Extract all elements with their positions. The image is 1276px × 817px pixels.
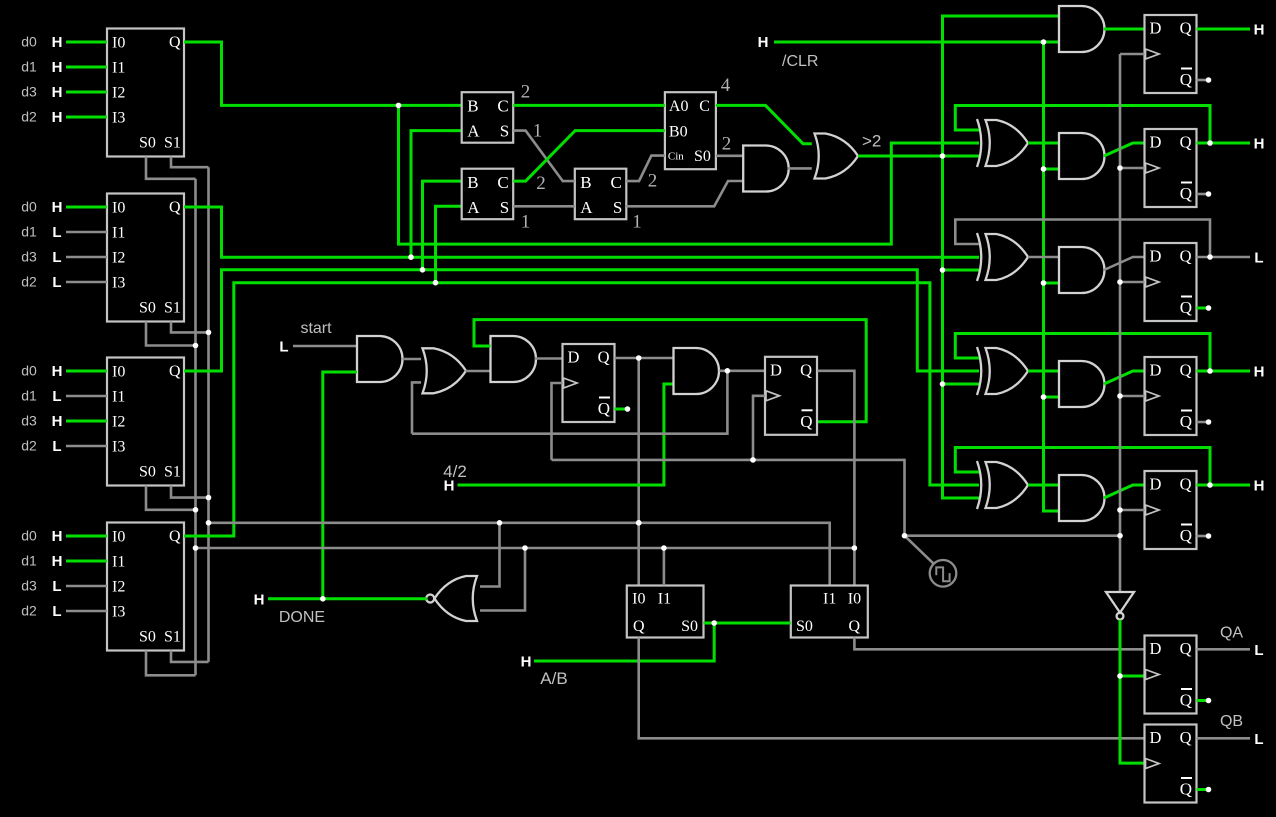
wire M2 S0 bend bbox=[146, 322, 196, 346]
svg-text:C: C bbox=[699, 98, 710, 115]
input label d0 H bbox=[21, 363, 62, 381]
or-gate G5 (greater-than-2) bbox=[815, 134, 859, 179]
wire A3 output to FF3.D bbox=[1104, 257, 1145, 270]
d-flip-flop FF5 row5 bbox=[1145, 471, 1197, 549]
wire S0 net to M5.I1 bbox=[663, 548, 666, 586]
wire A4 output to FF4.D bbox=[1104, 371, 1145, 384]
wire G2 lower input from run loop bbox=[412, 382, 421, 433]
svg-text:H: H bbox=[758, 34, 769, 51]
svg-text:L: L bbox=[52, 388, 61, 405]
svg-text:1: 1 bbox=[632, 212, 642, 233]
wire /CLR bus vertical bbox=[1044, 42, 1060, 511]
svg-text:Q: Q bbox=[633, 618, 645, 635]
wire inverted clock to FF-QB clock bbox=[1120, 620, 1145, 763]
wire U2.C to U4.B0 bbox=[513, 131, 665, 182]
svg-text:I0: I0 bbox=[632, 591, 645, 608]
svg-text:d1: d1 bbox=[21, 59, 37, 75]
wire M2.Q branch to U1.A bbox=[411, 131, 462, 258]
wire U3.C to U4.Cin bbox=[626, 156, 665, 182]
svg-text:d1: d1 bbox=[21, 388, 37, 404]
inverter N1 (clock) bbox=[1106, 592, 1134, 619]
d-flip-flop FF4 row4 bbox=[1145, 357, 1197, 435]
junction dot on wire S0 select line bbox=[193, 507, 199, 513]
svg-text:I2: I2 bbox=[112, 250, 125, 267]
junction dot on wire inverted clock to FF-QB clock bbox=[1117, 673, 1123, 679]
wire S1 select line bbox=[207, 167, 210, 662]
svg-text:S1: S1 bbox=[164, 464, 181, 481]
junction dot on wire S0 select line bbox=[193, 343, 199, 349]
wire S1 to NOR G7 upper input bbox=[480, 523, 500, 587]
svg-text:d3: d3 bbox=[21, 413, 37, 429]
junction dot on wire FF3.Q output bbox=[1207, 254, 1213, 260]
and-gate A5 row5 bbox=[1059, 475, 1105, 521]
svg-text:Q: Q bbox=[1180, 361, 1192, 380]
svg-text:I2: I2 bbox=[112, 579, 125, 596]
junction dot on wire S1 select line bbox=[206, 330, 212, 336]
wire U2.S to U3.A bbox=[513, 205, 575, 208]
and-gate G6 bbox=[674, 348, 720, 394]
xor-gate X4 row4 bbox=[977, 347, 1028, 395]
wire M3.Q to XOR row4 middle input bbox=[184, 270, 979, 371]
svg-text:Q: Q bbox=[1180, 526, 1192, 545]
wire clock branch to FF2 bbox=[1120, 167, 1145, 170]
wire S1 net horizontal to M6.I1 bbox=[209, 523, 830, 586]
svg-text:1: 1 bbox=[521, 212, 531, 233]
wire FF-QB.Q output bbox=[1197, 737, 1251, 740]
wire M1 S0 bend bbox=[146, 157, 196, 179]
svg-text:Q: Q bbox=[1180, 639, 1192, 658]
svg-text:Q: Q bbox=[169, 199, 181, 216]
comparator U1 bbox=[462, 92, 514, 143]
svg-text:S0: S0 bbox=[139, 629, 156, 646]
wire A/B input to S0 pins bbox=[534, 623, 714, 661]
junction dot on wire M1.Q to comparator U1.B bbox=[396, 103, 402, 109]
svg-text:S0: S0 bbox=[694, 148, 711, 165]
junction dot on wire G5 output to XOR row2 lower input bbox=[940, 153, 946, 159]
svg-text:H: H bbox=[1254, 22, 1265, 39]
svg-text:I2: I2 bbox=[112, 414, 125, 431]
wire bus branch to XOR row3 lower input bbox=[943, 269, 980, 272]
svg-text:H: H bbox=[52, 528, 63, 545]
nor-gate G7 (DONE) bbox=[426, 576, 477, 621]
junction dot on wire clock to FF-RUN bbox=[750, 457, 756, 463]
wire M1.Q branch to XOR row2 middle input bbox=[399, 105, 980, 244]
svg-text:A/B: A/B bbox=[540, 669, 567, 688]
wire clock branch to FF3 bbox=[1120, 281, 1145, 284]
svg-text:D: D bbox=[1150, 361, 1162, 380]
wire G7 output to DONE bbox=[268, 597, 427, 600]
wire input d0 to mux M2 (bit select B) I0 bbox=[66, 206, 107, 209]
svg-text:I3: I3 bbox=[112, 604, 125, 621]
svg-text:1: 1 bbox=[533, 121, 543, 142]
d-flip-flop FF-RUN bbox=[765, 357, 817, 435]
junction dot on wire M4.Q to XOR row5 middle input bbox=[433, 280, 439, 286]
svg-text:H: H bbox=[52, 413, 63, 430]
svg-text:B: B bbox=[467, 96, 478, 115]
svg-text:d2: d2 bbox=[21, 109, 37, 125]
d-flip-flop FF2 row2 bbox=[1145, 129, 1197, 207]
wire input d2 to mux M2 (bit select B) I3 bbox=[66, 281, 107, 284]
svg-text:I0: I0 bbox=[112, 200, 125, 217]
svg-text:I1: I1 bbox=[823, 591, 836, 608]
svg-text:L: L bbox=[52, 438, 61, 455]
svg-text:I3: I3 bbox=[112, 110, 125, 127]
svg-text:A: A bbox=[467, 121, 480, 140]
wire clock source stub bbox=[905, 536, 934, 564]
mux M4 (bit select D) bbox=[107, 523, 184, 651]
svg-text:Q: Q bbox=[1180, 247, 1192, 266]
svg-text:A: A bbox=[580, 198, 593, 217]
wire input d3 to mux M4 (bit select D) I2 bbox=[66, 585, 107, 588]
junction dot on wire S1 select line bbox=[206, 520, 212, 526]
wire FF3.Q output bbox=[1197, 256, 1251, 259]
wire FF-EN.Q to S1 line and mux M5.I0 bbox=[637, 358, 640, 586]
svg-text:L: L bbox=[52, 224, 61, 241]
input label d0 H bbox=[21, 528, 62, 546]
wire A5 output to FF5.D bbox=[1104, 485, 1145, 498]
svg-text:H: H bbox=[254, 592, 265, 609]
wire clock bus vertical bbox=[1119, 54, 1122, 591]
and-gate G4 bbox=[743, 146, 789, 192]
svg-text:L: L bbox=[1254, 250, 1263, 267]
wire /CLR branch to AND row4 lower input bbox=[1044, 396, 1060, 399]
junction dot on wire FF5.Qbar stub bbox=[1206, 533, 1212, 539]
svg-text:H: H bbox=[1254, 364, 1265, 381]
wire input d1 to mux M4 (bit select D) I1 bbox=[66, 560, 107, 563]
svg-text:L: L bbox=[1254, 731, 1263, 748]
svg-text:Q: Q bbox=[800, 360, 812, 379]
wire G3 output to FF-EN.D bbox=[535, 357, 563, 360]
svg-text:I0: I0 bbox=[112, 35, 125, 52]
svg-text:S0: S0 bbox=[796, 618, 813, 635]
wire M5.Q to FF-QB.D bbox=[639, 638, 1145, 739]
junction dot on wire /CLR input to AND row1 lower input bbox=[1041, 39, 1047, 45]
junction dot on wire G6 output to FF-RUN.D bbox=[725, 368, 731, 374]
input label d2 L bbox=[21, 438, 61, 456]
input label d2 L bbox=[21, 274, 61, 292]
svg-text:d2: d2 bbox=[21, 603, 37, 619]
svg-text:S0: S0 bbox=[681, 618, 698, 635]
svg-text:H: H bbox=[52, 109, 63, 126]
svg-text:L: L bbox=[52, 249, 61, 266]
svg-text:Q: Q bbox=[169, 528, 181, 545]
svg-text:B: B bbox=[580, 173, 591, 192]
svg-text:Q: Q bbox=[1180, 475, 1192, 494]
svg-text:d0: d0 bbox=[21, 363, 37, 379]
input label d1 H bbox=[21, 553, 62, 571]
wire input d0 to mux M3 (bit select C) I0 bbox=[66, 370, 107, 373]
junction dot on wire S0 net horizontal bbox=[522, 545, 528, 551]
adder U4 bbox=[665, 92, 716, 169]
input label d0 H bbox=[21, 199, 62, 217]
wire 4/2 input to AND G6 lower input bbox=[458, 384, 674, 485]
wire FF-QB.Qbar stub bbox=[1197, 788, 1209, 791]
junction dot on wire FF5.Q output bbox=[1207, 482, 1213, 488]
wire FF5.Qbar stub bbox=[1197, 535, 1209, 538]
mux M5 (2-to-1) bbox=[627, 586, 704, 638]
comparator U2 bbox=[462, 169, 514, 220]
svg-text:H: H bbox=[521, 654, 532, 671]
mux M6 (2-to-1) bbox=[791, 586, 868, 638]
wire clock to FF-EN bbox=[552, 383, 563, 460]
input label d0 H bbox=[21, 34, 62, 52]
input label d1 L bbox=[21, 224, 61, 242]
svg-text:D: D bbox=[1150, 247, 1162, 266]
svg-text:Q: Q bbox=[800, 412, 812, 431]
input label d3 L bbox=[21, 249, 61, 267]
junction dot on wire FF-EN.Q to S1 line and mux M5.I0 bbox=[636, 520, 642, 526]
junction dot on wire /CLR bus vertical bbox=[1041, 394, 1047, 400]
input label d2 H bbox=[21, 109, 62, 127]
and-gate A3 row3 bbox=[1059, 247, 1105, 293]
junction dot on wire FF4.Q output bbox=[1207, 368, 1213, 374]
junction dot on wire greater-than-2 bus vertical bbox=[940, 381, 946, 387]
wire FF-EN.Qbar stub bbox=[615, 408, 628, 411]
xor-gate X5 row5 bbox=[977, 461, 1028, 509]
and-gate G3 bbox=[491, 336, 537, 382]
svg-text:Q: Q bbox=[1180, 19, 1192, 38]
junction dot on wire FF-RUN.Q to S0 line and mux M6.I0 bbox=[852, 545, 858, 551]
svg-text:d1: d1 bbox=[21, 224, 37, 240]
svg-text:d0: d0 bbox=[21, 528, 37, 544]
svg-text:Q: Q bbox=[1180, 728, 1192, 747]
wire FF-RUN.Q to S0 line and mux M6.I0 bbox=[818, 371, 855, 586]
junction dot on wire FF1.Qbar stub bbox=[1206, 77, 1212, 83]
junction dot on wire FF-QB.Qbar stub bbox=[1206, 787, 1212, 793]
wire X3 output to AND A3 bbox=[1028, 256, 1059, 259]
svg-text:C: C bbox=[610, 173, 621, 192]
svg-text:d2: d2 bbox=[21, 274, 37, 290]
junction dot on wire M3.Q to XOR row4 middle input bbox=[420, 267, 426, 273]
svg-text:I3: I3 bbox=[112, 439, 125, 456]
svg-text:/CLR: /CLR bbox=[782, 53, 818, 70]
xor-gate X3 row3 bbox=[977, 233, 1028, 281]
svg-text:S: S bbox=[500, 121, 509, 140]
svg-text:I1: I1 bbox=[112, 60, 125, 77]
wire FF5.Q feedback to X5 upper input bbox=[955, 448, 1210, 486]
junction dot on wire clock bus vertical bbox=[1117, 533, 1123, 539]
wire FF1.Q output bbox=[1197, 28, 1251, 31]
svg-text:I1: I1 bbox=[112, 225, 125, 242]
svg-text:D: D bbox=[1150, 133, 1162, 152]
mux M3 (bit select C) bbox=[107, 358, 184, 486]
wire M2.Q to XOR row3 middle input bbox=[184, 207, 979, 257]
wire U3.S to AND G4 lower input bbox=[626, 181, 743, 206]
wire FF-RUN.Qbar loop to G3 upper input bbox=[474, 320, 866, 422]
wire DONE to G1 lower input bbox=[323, 372, 357, 599]
and-gate G1 (start gate) bbox=[357, 336, 403, 382]
svg-text:D: D bbox=[1150, 639, 1162, 658]
junction dot on wire FF3.Qbar stub bbox=[1206, 305, 1212, 311]
junction dot on wire FF-QA.Qbar stub bbox=[1206, 698, 1212, 704]
wire /CLR branch to AND row3 lower input bbox=[1044, 282, 1060, 285]
wire M1 S1 bend bbox=[171, 157, 209, 168]
svg-text:I1: I1 bbox=[112, 389, 125, 406]
junction dot on wire clock branch to FF2 bbox=[1117, 165, 1123, 171]
wire clock branch to FF1 bbox=[1120, 53, 1145, 56]
svg-text:I1: I1 bbox=[658, 591, 671, 608]
svg-text:L: L bbox=[279, 339, 288, 356]
svg-text:L: L bbox=[1254, 642, 1263, 659]
wire M4 S0 bend bbox=[146, 651, 196, 676]
svg-text:Q: Q bbox=[598, 399, 610, 418]
wire input d0 to mux M1 (bit select A) I0 bbox=[66, 41, 107, 44]
wire /CLR branch to AND row2 lower input bbox=[1044, 168, 1060, 171]
wire input d1 to mux M3 (bit select C) I1 bbox=[66, 395, 107, 398]
junction dot on wire clock branch to FF4 bbox=[1117, 393, 1123, 399]
wire A1 output to FF1.D bbox=[1104, 28, 1145, 31]
and-gate A1 row1 bbox=[1059, 6, 1105, 52]
input label d1 L bbox=[21, 388, 61, 406]
junction dot on wire M5.S0 to M6.S0 bbox=[711, 620, 717, 626]
wire M3 S0 bend bbox=[146, 486, 196, 510]
wire M3 S1 bend bbox=[171, 486, 209, 498]
wire FF4.Q feedback to X4 upper input bbox=[955, 334, 1210, 372]
svg-text:d3: d3 bbox=[21, 84, 37, 100]
svg-text:Q: Q bbox=[1180, 298, 1192, 317]
svg-text:S: S bbox=[613, 198, 622, 217]
svg-text:d3: d3 bbox=[21, 578, 37, 594]
svg-text:I3: I3 bbox=[112, 275, 125, 292]
comparator U3 bbox=[575, 169, 627, 220]
wire FF3.Q feedback to X3 upper input bbox=[955, 220, 1210, 258]
junction dot on wire S0 net horizontal bbox=[661, 545, 667, 551]
junction dot on wire clock branch to FF5 bbox=[1117, 507, 1123, 513]
wire M3.Q branch to U2.B bbox=[423, 181, 462, 270]
wire input d0 to mux M4 (bit select D) I0 bbox=[66, 535, 107, 538]
junction dot on wire clock line bbox=[902, 533, 908, 539]
wire input d3 to mux M2 (bit select B) I2 bbox=[66, 256, 107, 259]
svg-text:S0: S0 bbox=[139, 464, 156, 481]
wire FF2.Q feedback to X2 upper input bbox=[955, 106, 1210, 144]
svg-text:C: C bbox=[497, 173, 508, 192]
wire FF2.Qbar stub bbox=[1197, 193, 1209, 196]
wire M6.Q to FF-QA.D bbox=[854, 638, 1144, 650]
wire FF1.Qbar stub bbox=[1197, 79, 1209, 82]
wire M4.Q branch to U2.A bbox=[436, 206, 462, 282]
input label d3 H bbox=[21, 413, 62, 431]
svg-text:QB: QB bbox=[1220, 713, 1243, 730]
svg-text:Q: Q bbox=[1180, 691, 1192, 710]
svg-text:S1: S1 bbox=[164, 629, 181, 646]
wire greater-than-2 bus vertical bbox=[943, 16, 1060, 498]
svg-text:Q: Q bbox=[598, 348, 610, 367]
svg-text:Cin: Cin bbox=[668, 151, 684, 163]
svg-text:QA: QA bbox=[1220, 625, 1243, 642]
d-flip-flop FF-QA bbox=[1145, 636, 1197, 714]
svg-text:Q: Q bbox=[1180, 780, 1192, 799]
svg-text:2: 2 bbox=[648, 171, 658, 192]
svg-text:S0: S0 bbox=[139, 135, 156, 152]
svg-text:Q: Q bbox=[1180, 412, 1192, 431]
svg-text:D: D bbox=[1150, 19, 1162, 38]
wire /CLR input to AND row1 lower input bbox=[774, 41, 1059, 44]
and-gate A2 row2 bbox=[1059, 133, 1105, 179]
svg-text:2: 2 bbox=[521, 82, 531, 103]
svg-text:H: H bbox=[52, 84, 63, 101]
mux M2 (bit select B) bbox=[107, 194, 184, 322]
d-flip-flop FF-EN (enable) bbox=[563, 344, 615, 422]
svg-text:H: H bbox=[52, 59, 63, 76]
wire FF5.Q output bbox=[1197, 484, 1251, 487]
wire FF4.Qbar stub bbox=[1197, 421, 1209, 424]
svg-text:Q: Q bbox=[1180, 133, 1192, 152]
wire A2 output to FF2.D bbox=[1104, 143, 1145, 156]
svg-text:L: L bbox=[52, 274, 61, 291]
wire G6 output to FF-RUN.D bbox=[720, 369, 766, 372]
wire S0 select line bbox=[194, 179, 197, 676]
svg-text:I0: I0 bbox=[112, 364, 125, 381]
svg-text:S0: S0 bbox=[139, 300, 156, 317]
wire input d1 to mux M2 (bit select B) I1 bbox=[66, 231, 107, 234]
svg-text:I0: I0 bbox=[112, 529, 125, 546]
junction dot on wire S1 net horizontal to M6.I1 bbox=[636, 520, 642, 526]
wire M4 S1 bend bbox=[171, 651, 209, 662]
svg-text:d0: d0 bbox=[21, 34, 37, 50]
wire U4.S0 to AND G4 upper input bbox=[716, 155, 743, 158]
wire input d2 to mux M1 (bit select A) I3 bbox=[66, 116, 107, 119]
xor-gate X2 row2 bbox=[977, 119, 1028, 167]
junction dot on wire /CLR bus vertical bbox=[1041, 166, 1047, 172]
svg-text:DONE: DONE bbox=[279, 609, 325, 626]
input label d2 L bbox=[21, 603, 61, 621]
svg-text:H: H bbox=[52, 553, 63, 570]
svg-text:Q: Q bbox=[848, 618, 860, 635]
wire input d2 to mux M3 (bit select C) I3 bbox=[66, 445, 107, 448]
wire X4 output to AND A4 bbox=[1028, 370, 1059, 373]
junction dot on wire /CLR bus vertical bbox=[1041, 280, 1047, 286]
wire bus branch to XOR row4 lower input bbox=[943, 383, 980, 386]
svg-text:A0: A0 bbox=[669, 98, 689, 115]
wire FF-QA.Qbar stub bbox=[1197, 699, 1209, 702]
svg-text:I0: I0 bbox=[848, 591, 861, 608]
svg-text:2: 2 bbox=[536, 173, 546, 194]
input label d3 H bbox=[21, 84, 62, 102]
svg-text:Q: Q bbox=[1180, 70, 1192, 89]
svg-text:L: L bbox=[52, 603, 61, 620]
wire start input to AND G1 upper input bbox=[293, 345, 357, 348]
junction dot on wire FF-EN.Q to AND G6 upper input bbox=[636, 355, 642, 361]
wire X2 output to AND A2 bbox=[1028, 142, 1059, 145]
input label d3 L bbox=[21, 578, 61, 596]
wire FF2.Q output bbox=[1197, 142, 1251, 145]
wire clock to FF-RUN bbox=[753, 396, 765, 460]
svg-text:H: H bbox=[1254, 478, 1265, 495]
svg-text:S: S bbox=[500, 198, 509, 217]
wire input d1 to mux M1 (bit select A) I1 bbox=[66, 66, 107, 69]
svg-text:I1: I1 bbox=[112, 554, 125, 571]
svg-text:D: D bbox=[1150, 728, 1162, 747]
wire G2 output to AND G3 lower input bbox=[466, 370, 491, 373]
wire input d3 to mux M3 (bit select C) I2 bbox=[66, 420, 107, 423]
mux M1 (bit select A) bbox=[107, 29, 184, 157]
svg-text:4: 4 bbox=[721, 75, 731, 96]
svg-text:I2: I2 bbox=[112, 85, 125, 102]
wire U1.S to U3.B bbox=[513, 131, 575, 182]
input label d1 H bbox=[21, 59, 62, 77]
d-flip-flop FF-QB bbox=[1145, 725, 1197, 803]
wire input d2 to mux M4 (bit select D) I3 bbox=[66, 610, 107, 613]
wire G4 output to OR G5 lower input bbox=[788, 167, 812, 170]
svg-text:d0: d0 bbox=[21, 199, 37, 215]
wire FF3.Qbar stub bbox=[1197, 307, 1209, 310]
wire G6 output loop to G2 lower input bbox=[412, 371, 727, 434]
svg-text:d1: d1 bbox=[21, 553, 37, 569]
svg-text:H: H bbox=[444, 478, 455, 495]
wire M5.S0 to M6.S0 bbox=[704, 622, 791, 625]
svg-text:B: B bbox=[467, 173, 478, 192]
wire clock branch to FF4 bbox=[1120, 395, 1145, 398]
